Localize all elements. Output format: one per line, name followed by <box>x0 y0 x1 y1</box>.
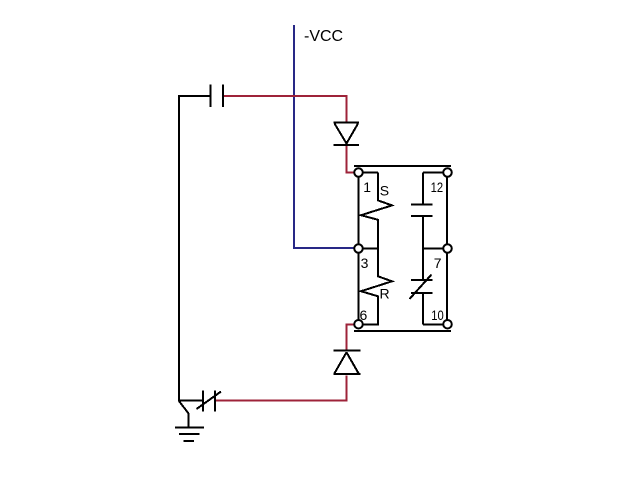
svg-text:7: 7 <box>434 255 442 271</box>
svg-text:1: 1 <box>363 179 371 195</box>
svg-text:-VCC: -VCC <box>304 28 343 45</box>
svg-text:10: 10 <box>431 307 444 323</box>
svg-text:12: 12 <box>431 179 444 195</box>
svg-text:R: R <box>380 286 390 302</box>
svg-text:3: 3 <box>361 255 369 271</box>
svg-text:6: 6 <box>360 307 368 323</box>
svg-text:S: S <box>380 183 389 199</box>
